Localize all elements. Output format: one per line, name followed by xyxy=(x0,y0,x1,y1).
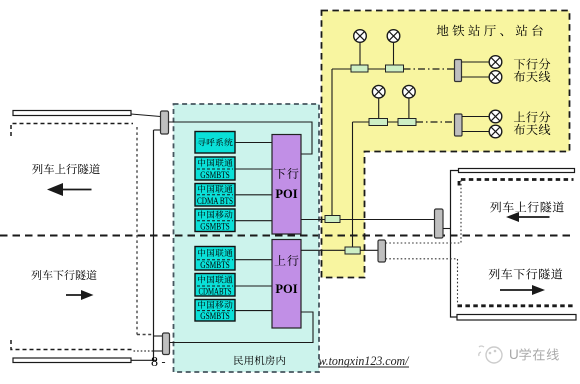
ceiling antenna A2 xyxy=(387,30,400,43)
svg-text:CDMA BTS: CDMA BTS xyxy=(197,196,233,207)
ceiling antenna A3 xyxy=(372,85,385,98)
dotted wire B upper xyxy=(386,180,462,243)
wall antenna A7 xyxy=(489,110,502,123)
label 民用机房内 xyxy=(234,356,243,365)
wire upper bar to connector xyxy=(131,114,161,117)
coupler row1-a xyxy=(351,65,368,72)
wire BTS to POI at y=286 xyxy=(235,285,272,287)
leaky cable, upper-left tunnel xyxy=(13,111,131,116)
label 下行分布天线 xyxy=(514,59,525,70)
antenna stem A4 xyxy=(408,98,410,119)
svg-text:U: U xyxy=(509,347,519,362)
row2 dash-dot wire to splitter xyxy=(416,121,455,123)
corner dash to feeder line xyxy=(137,334,153,336)
connector (lower-left) xyxy=(163,333,170,355)
lower-left tunnel dashed outline xyxy=(11,340,134,350)
svg-text:GSMBTS: GSMBTS xyxy=(200,311,230,322)
row1 dash-dot wire to splitter xyxy=(404,68,455,70)
wire S1 to A6 xyxy=(462,76,490,78)
wall antenna A8 xyxy=(489,125,502,138)
upper-right tunnel dashed outline xyxy=(459,180,574,186)
splitter S2 xyxy=(455,114,463,136)
wire lower bar to feeder xyxy=(131,359,157,361)
leaky cable, upper-right tunnel xyxy=(459,169,575,173)
arrow right (lower-right tunnel) xyxy=(500,289,535,291)
coupler trunk2 xyxy=(345,247,360,254)
antenna stem A2 xyxy=(393,42,395,65)
tunnel centre divider dashed line xyxy=(0,235,571,237)
label 列车下行隧道 (right) xyxy=(489,269,500,280)
arrow left (upper-right tunnel) xyxy=(515,216,550,218)
splitter S1 xyxy=(455,60,462,82)
wire BTS to POI at y=259.7 xyxy=(235,259,272,261)
BTS box 中国联通 GSMBTS (down) xyxy=(195,157,235,180)
ceiling antenna A1 xyxy=(354,30,367,43)
wire connector to 下行POI xyxy=(169,122,313,154)
wire S2 to A7 xyxy=(462,116,489,118)
stub riser to upper connector xyxy=(154,129,161,131)
label 地铁站厅、站台 xyxy=(437,25,449,36)
lower-right tunnel dashed outline xyxy=(458,304,574,307)
connector B xyxy=(378,240,386,262)
svg-text:POI: POI xyxy=(275,282,297,296)
equipment room panel 民用机房内 background xyxy=(174,104,320,372)
logo icon xyxy=(486,347,502,363)
BTS box 中国联通 CDMABTS xyxy=(195,274,235,297)
row1 riser wire xyxy=(331,69,333,216)
svg-text:w.tongxin123.com/: w.tongxin123.com/ xyxy=(319,353,410,368)
wire BTS to POI at y=310.6 xyxy=(235,310,272,312)
BTS box 中国移动 GSMBTS (down) xyxy=(195,209,235,232)
stub to lower connector bottom xyxy=(154,350,163,352)
row2 distribution wire xyxy=(353,121,417,123)
label 列车上行隧道 (left) xyxy=(32,164,42,174)
arrow left (upper-left tunnel) xyxy=(60,189,92,191)
feeder wire to right bars xyxy=(451,171,459,318)
label 上行分布天线 xyxy=(514,111,525,121)
wire S2 to A8 xyxy=(462,131,489,133)
BTS box 中国联通 GSMBTS (up) xyxy=(195,247,235,271)
dotted joiner to feeder xyxy=(134,350,154,352)
trunk wire 上行 POI to splitter B xyxy=(301,249,378,251)
wall antenna A6 xyxy=(489,71,502,84)
leaky cable, lower-right tunnel xyxy=(457,315,576,321)
svg-text:GSMBTS: GSMBTS xyxy=(200,260,230,271)
coupler trunk1 xyxy=(325,216,340,223)
svg-text:GSMBTS: GSMBTS xyxy=(200,221,230,232)
wire BTS to POI at y=194.8 xyxy=(235,194,272,196)
upper-left tunnel dashed outline xyxy=(11,124,133,137)
POI combiner 上行 POI xyxy=(272,240,301,329)
wire BTS to POI at y=142.5 xyxy=(235,142,272,144)
equipment room dashed border xyxy=(174,104,320,372)
feeder riser wire xyxy=(153,130,155,361)
svg-text:GSMBTS: GSMBTS xyxy=(200,170,230,181)
connector (upper-left) xyxy=(161,111,169,134)
dotted wire B lower xyxy=(386,259,458,305)
row2 riser wire xyxy=(352,122,354,247)
svg-text:8: 8 xyxy=(151,355,158,370)
wire connector to 上行POI xyxy=(170,312,314,343)
left tunnel right edge dotted line xyxy=(136,127,138,335)
wire BTS to POI at y=220.7 xyxy=(235,220,272,222)
svg-text:-: - xyxy=(162,355,166,369)
station hall area 地铁站厅、站台 background (L-shape) xyxy=(322,11,570,278)
antenna stem A1 xyxy=(359,42,361,65)
station hall dashed border xyxy=(322,11,570,278)
leaky cable, lower-left tunnel xyxy=(13,358,131,363)
svg-text:CDMABTS: CDMABTS xyxy=(199,286,232,297)
POI combiner 下行 POI xyxy=(272,135,301,235)
connector A xyxy=(435,209,444,238)
stub connector A to feeder xyxy=(443,228,451,230)
arrow right (lower-left tunnel) xyxy=(66,294,83,296)
coupler row1-b xyxy=(386,65,404,72)
wire S1 to A5 xyxy=(462,61,490,63)
svg-text:POI: POI xyxy=(275,187,297,201)
label 列车下行隧道 (left) xyxy=(31,270,41,280)
antenna stem A3 xyxy=(378,98,380,119)
wall antenna A5 xyxy=(489,56,502,69)
wire BTS to POI at y=169 xyxy=(235,168,272,170)
BTS box 中国移动 GSMBTS (up) xyxy=(195,300,235,322)
label 列车上行隧道 (right) xyxy=(490,202,501,213)
row1 distribution wire xyxy=(332,68,404,70)
coupler row2-a xyxy=(369,119,388,126)
trunk wire 下行 POI to station xyxy=(301,219,435,221)
BTS box 中国联通 CDMA BTS xyxy=(195,184,235,207)
coupler row2-b xyxy=(398,119,416,126)
BTS box 寻呼系统 xyxy=(195,132,235,154)
stub to lower connector top xyxy=(154,335,163,337)
ceiling antenna A4 xyxy=(403,85,416,98)
